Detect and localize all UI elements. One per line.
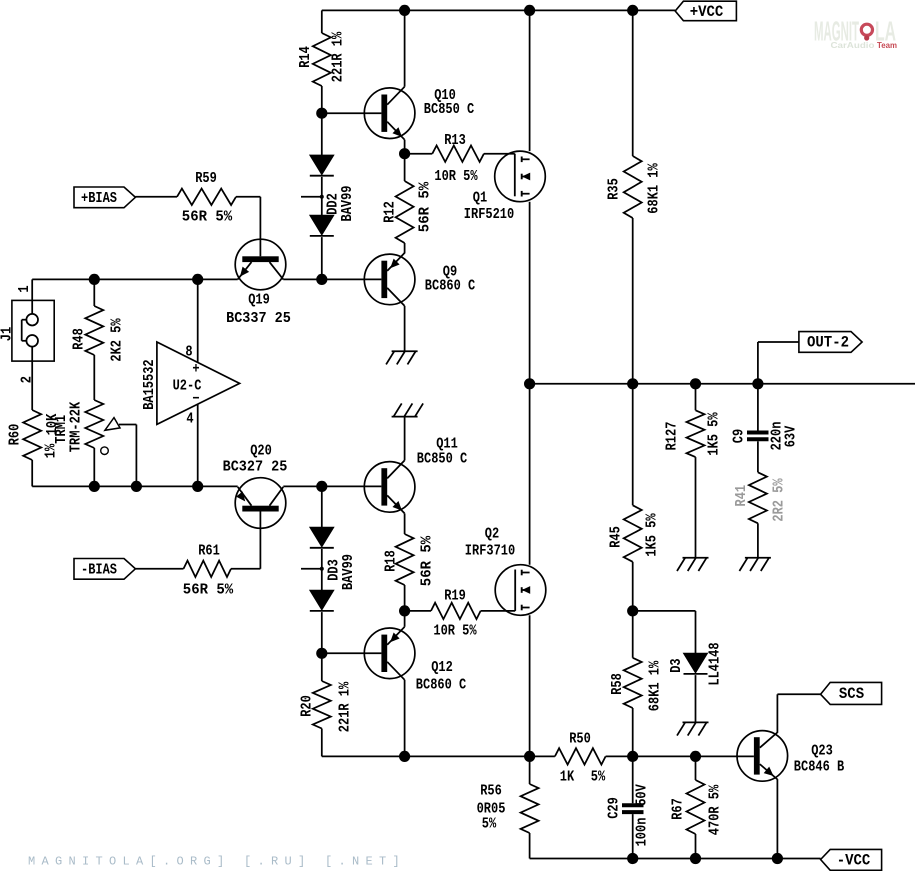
node Q10 emitter / R13 / R12 junction <box>399 148 410 159</box>
node op-amp pin8 junction <box>192 274 203 285</box>
svg-text:R20: R20 <box>300 695 316 717</box>
wire Q23 emitter to -VCC rail <box>776 779 778 858</box>
wire Q2 source down <box>529 615 531 756</box>
flag -BIAS <box>74 559 135 580</box>
wire Q19 collector to Q9 base <box>283 278 381 280</box>
node DD3 / R20 / Q12 base junction <box>316 648 327 659</box>
wire output rail to Q2 drain <box>529 384 531 565</box>
svg-text:R67: R67 <box>671 798 687 820</box>
svg-text:TRM1: TRM1 <box>54 415 70 444</box>
svg-text:2R2 5%: 2R2 5% <box>772 478 788 521</box>
wire R20 to R50 row <box>322 755 754 757</box>
resistor R127 1K5 5% <box>665 384 723 558</box>
node DD2 / Q19 / Q9 base junction <box>316 274 327 285</box>
svg-text:68K1 1%: 68K1 1% <box>647 163 663 214</box>
svg-text:R127: R127 <box>665 422 681 451</box>
node output rail at R127 <box>690 378 701 389</box>
node -VCC at Q23 emitter <box>772 853 783 864</box>
svg-text:R35: R35 <box>607 178 623 200</box>
svg-text:Q12: Q12 <box>431 660 453 676</box>
svg-text:C9: C9 <box>732 429 748 443</box>
resistor R41 2R2 5% <box>734 472 788 558</box>
resistor R59 56R 5% <box>135 171 260 226</box>
resistor R19 10R 5% <box>405 589 516 640</box>
svg-text:R13: R13 <box>444 133 466 149</box>
flag +BIAS <box>74 187 135 208</box>
node +VCC junction at Q1 column <box>524 5 535 16</box>
node R18 / R19 / Q12 emitter junction <box>399 605 410 616</box>
resistor R48 2K2 5% <box>72 279 126 400</box>
svg-text:Q1: Q1 <box>473 191 488 207</box>
svg-text:1: 1 <box>17 285 33 292</box>
transistor Q11 BC850 C <box>364 437 467 514</box>
wire Q20 collector to Q11 base <box>283 485 381 487</box>
svg-text:221R 1%: 221R 1% <box>331 32 347 83</box>
svg-text:5%: 5% <box>482 817 497 833</box>
wire Q1 source to output rail <box>529 202 531 384</box>
wire Q11 collector to ground <box>404 417 406 461</box>
resistor R13 10R 5% <box>405 133 515 185</box>
svg-text:5%: 5% <box>591 770 606 786</box>
node -VCC at C29 <box>627 853 638 864</box>
flag -VCC <box>821 849 882 870</box>
svg-text:BC850 C: BC850 C <box>424 102 475 118</box>
svg-text:2K2 5%: 2K2 5% <box>110 318 126 361</box>
flag SCS <box>821 682 882 704</box>
svg-text:R14: R14 <box>298 46 314 68</box>
svg-text:SCS: SCS <box>839 685 864 703</box>
svg-text:56R 5%: 56R 5% <box>418 182 434 233</box>
diode D3 LL4148 <box>633 611 724 723</box>
transistor Q20 BC327 <box>223 444 288 569</box>
svg-text:U2-C: U2-C <box>173 379 202 395</box>
resistor R50 1K 5% <box>555 732 606 786</box>
resistor R12 56R 5% <box>383 154 434 254</box>
svg-text:+BIAS: +BIAS <box>81 191 117 207</box>
resistor R58 68K1 1% <box>610 611 664 757</box>
resistor R18 56R 5% <box>384 513 436 611</box>
transistor Q9 BC860 C <box>364 253 475 306</box>
resistor R45 1K5 5% <box>609 384 661 611</box>
svg-text:63V: 63V <box>784 425 800 447</box>
resistor R61 56R 5% <box>135 544 233 599</box>
svg-text:Q11: Q11 <box>436 437 458 453</box>
svg-text:Q20: Q20 <box>250 444 272 460</box>
svg-text:-VCC: -VCC <box>837 852 871 870</box>
svg-text:10R 5%: 10R 5% <box>433 624 476 640</box>
svg-text:MAGNITOLA[.ORG] [.RU] [.NET]: MAGNITOLA[.ORG] [.RU] [.NET] <box>28 855 406 869</box>
svg-text:R60: R60 <box>8 424 24 446</box>
svg-text:470R 5%: 470R 5% <box>708 785 724 836</box>
svg-text:50V: 50V <box>635 784 651 806</box>
svg-text:R50: R50 <box>569 732 591 748</box>
svg-text:2: 2 <box>20 376 36 383</box>
node R67 / Q23 base junction <box>690 751 701 762</box>
connector J1 <box>0 279 54 410</box>
svg-text:4: 4 <box>186 412 193 428</box>
node output rail at R35/R45 <box>627 378 638 389</box>
node -VCC at R67 <box>690 853 701 864</box>
transistor Q1 IRF5210 <box>464 151 546 223</box>
node R50 / R58 / C29 junction <box>627 751 638 762</box>
diode DD3 BAV99 (dual) <box>301 486 357 653</box>
svg-text:1K: 1K <box>560 770 575 786</box>
ground at R127 <box>677 558 709 571</box>
resistor R56 0R05 5% <box>477 756 539 858</box>
ground at Q9 collector <box>386 351 418 364</box>
svg-text:-BIAS: -BIAS <box>81 562 117 578</box>
svg-text:1K5 5%: 1K5 5% <box>707 412 723 455</box>
svg-text:56R 5%: 56R 5% <box>183 583 234 599</box>
svg-text:Q19: Q19 <box>248 293 270 309</box>
svg-text:56R 5%: 56R 5% <box>182 210 233 226</box>
node op-amp pin4 junction <box>192 481 203 492</box>
ground at R41 <box>739 558 771 571</box>
svg-text:R61: R61 <box>198 544 220 560</box>
svg-text:BC337 25: BC337 25 <box>226 311 291 327</box>
svg-text:R18: R18 <box>384 550 400 572</box>
wire bottom row R60/TRM1/opamp/Q20 <box>32 485 238 487</box>
ground at Q11 collector <box>392 403 424 416</box>
node Q12 collector junction <box>399 751 410 762</box>
transistor Q2 IRF3710 <box>465 527 546 616</box>
svg-text:Q23: Q23 <box>811 744 833 760</box>
svg-text:10R 5%: 10R 5% <box>434 169 477 185</box>
ground at D3 <box>677 722 709 735</box>
svg-text:C29: C29 <box>607 797 623 819</box>
svg-text:BAV99: BAV99 <box>341 554 357 590</box>
wire OUT-2 output rail <box>530 383 915 385</box>
svg-text:IRF3710: IRF3710 <box>465 544 515 560</box>
svg-text:56R 5%: 56R 5% <box>420 536 436 587</box>
flag +VCC <box>675 1 736 21</box>
svg-text:R56: R56 <box>480 784 502 800</box>
svg-text:68K1 1%: 68K1 1% <box>648 661 664 712</box>
capacitor C29 100n 50V <box>607 756 651 858</box>
svg-text:BC860 C: BC860 C <box>416 678 467 694</box>
resistor R20 221R 1% <box>300 653 354 756</box>
flag OUT-2 <box>758 332 862 384</box>
node R45 / R58 / D3 junction <box>627 605 638 616</box>
svg-text:221R 1%: 221R 1% <box>338 682 354 733</box>
resistor R14 221R 1% <box>298 10 347 113</box>
node R14/Q10 base junction <box>316 108 327 119</box>
svg-text:R45: R45 <box>609 526 625 548</box>
svg-text:R58: R58 <box>610 673 626 695</box>
svg-text:OUT-2: OUT-2 <box>807 334 849 352</box>
diode DD2 BAV99 (dual) <box>301 113 356 279</box>
transistor Q23 BC846 B <box>737 731 844 782</box>
svg-text:TRM-22K: TRM-22K <box>69 402 85 453</box>
wire Q9 collector to ground <box>404 306 406 351</box>
svg-text:LL4148: LL4148 <box>708 642 724 685</box>
wire input row J1/R48/opamp/Q19 <box>32 278 238 280</box>
wire +VCC to Q1 drain <box>529 10 531 151</box>
svg-text:BA15532: BA15532 <box>142 359 158 409</box>
node output rail at C9 <box>752 378 763 389</box>
svg-text:R19: R19 <box>444 589 466 605</box>
svg-text:8: 8 <box>185 345 192 361</box>
transistor Q19 BC337 <box>226 197 291 327</box>
node R48 top junction <box>89 274 100 285</box>
node R56 / R50 junction <box>524 751 535 762</box>
capacitor C9 220n 63V <box>732 384 800 473</box>
svg-text:CarAudio: CarAudio <box>831 40 875 50</box>
svg-text:IRF5210: IRF5210 <box>464 207 514 223</box>
op-amp U2-C BA15532 <box>142 279 240 486</box>
node +VCC junction at R14 <box>399 5 410 16</box>
svg-text:BAV99: BAV99 <box>340 186 356 222</box>
svg-text:Team: Team <box>877 40 897 50</box>
svg-text:R59: R59 <box>195 171 217 187</box>
wire Q23 collector to SCS <box>777 694 820 733</box>
trimmer TRM1 TRM-22K <box>54 400 137 486</box>
resistor R67 470R 5% <box>671 756 724 858</box>
svg-text:R12: R12 <box>383 201 399 223</box>
wire -VCC rail <box>530 858 821 860</box>
svg-text:R48: R48 <box>72 328 88 350</box>
svg-text:Q2: Q2 <box>485 527 499 543</box>
svg-text:0R05: 0R05 <box>477 802 506 818</box>
svg-text:1K5 5%: 1K5 5% <box>645 513 661 556</box>
svg-text:+: + <box>192 362 199 378</box>
node wiper junction <box>131 481 142 492</box>
node output rail at Q1/Q2 column <box>524 378 535 389</box>
svg-text:BC327 25: BC327 25 <box>223 460 288 476</box>
transistor Q10 BC850 C <box>322 10 475 153</box>
svg-text:J1: J1 <box>0 327 16 342</box>
node +VCC junction at R35 <box>627 5 638 16</box>
transistor Q12 BC860 C <box>322 611 467 757</box>
wire +VCC rail <box>322 9 675 11</box>
svg-text:100n: 100n <box>635 818 651 847</box>
svg-text:BC846 B: BC846 B <box>794 760 845 776</box>
svg-text:BC850 C: BC850 C <box>417 452 468 468</box>
resistor R60 10K 1% <box>8 410 62 486</box>
svg-text:1%: 1% <box>44 444 60 459</box>
svg-text:+VCC: +VCC <box>690 3 724 21</box>
node TRM1 bottom junction <box>89 481 100 492</box>
svg-text:BC860 C: BC860 C <box>425 279 476 295</box>
svg-text:R41: R41 <box>734 485 750 507</box>
resistor R35 68K1 1% <box>607 10 663 383</box>
node DD3 / Q20 / Q11 base junction <box>316 481 327 492</box>
watermark logo MAGNITOLA CarAudio Team <box>814 16 897 50</box>
svg-text:D3: D3 <box>669 658 685 672</box>
